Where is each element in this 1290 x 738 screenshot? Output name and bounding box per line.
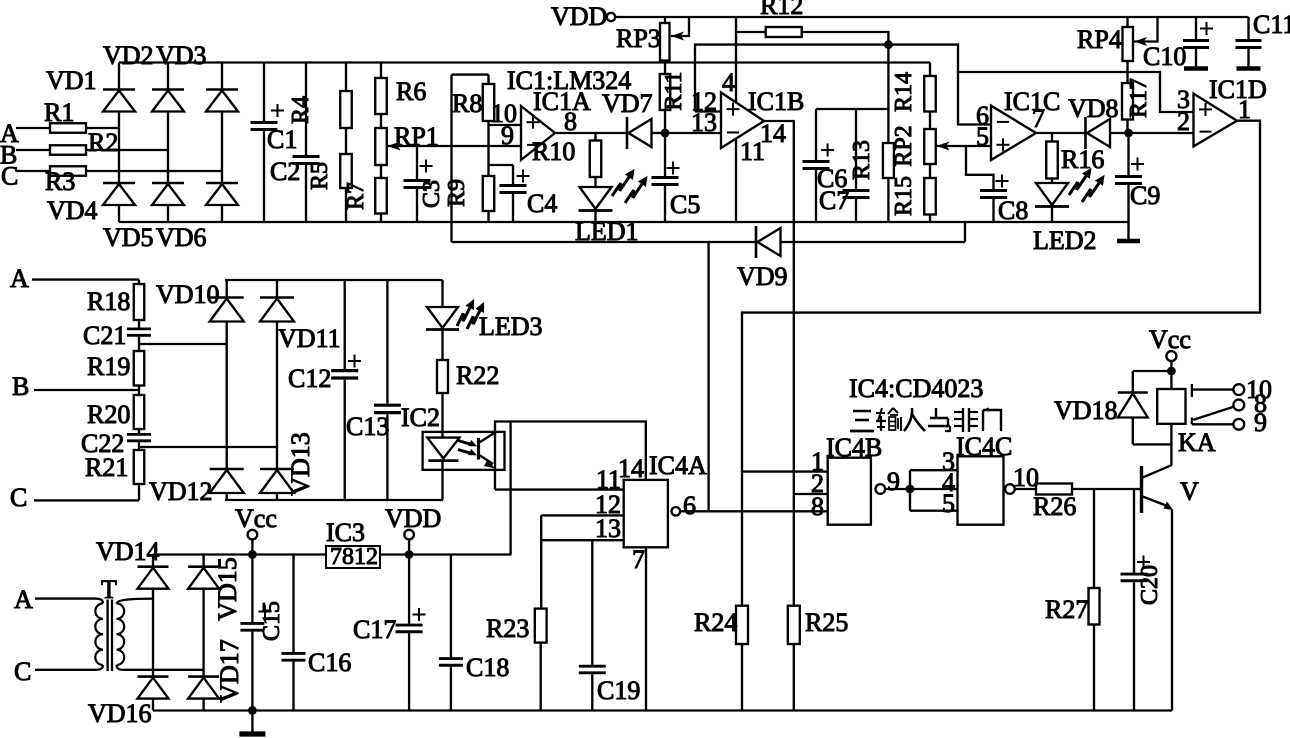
svg-text:R8: R8 — [452, 89, 482, 118]
svg-text:2: 2 — [1177, 107, 1190, 136]
svg-text:VD18: VD18 — [1054, 396, 1118, 425]
svg-text:C2: C2 — [270, 157, 300, 186]
svg-text:C20: C20 — [1137, 565, 1163, 605]
svg-text:8: 8 — [811, 492, 824, 521]
svg-text:Vcc: Vcc — [235, 504, 277, 533]
svg-text:RP3: RP3 — [616, 24, 661, 53]
svg-text:7: 7 — [1032, 104, 1045, 133]
svg-text:IC4A: IC4A — [649, 451, 707, 480]
svg-text:RP4: RP4 — [1077, 25, 1122, 54]
svg-text:R12: R12 — [760, 0, 803, 20]
svg-text:IC3: IC3 — [326, 518, 365, 547]
svg-text:C: C — [1, 162, 18, 191]
svg-text:C4: C4 — [527, 189, 557, 218]
svg-text:R23: R23 — [486, 614, 529, 643]
svg-text:VDD: VDD — [385, 504, 441, 533]
svg-text:VDD: VDD — [551, 2, 607, 31]
svg-text:7: 7 — [632, 545, 645, 574]
svg-text:C3: C3 — [419, 180, 445, 208]
svg-text:IC2: IC2 — [401, 403, 440, 432]
svg-text:13: 13 — [595, 514, 621, 543]
svg-text:R27: R27 — [1045, 595, 1088, 624]
svg-text:LED2: LED2 — [1033, 226, 1097, 255]
svg-text:C5: C5 — [670, 190, 700, 219]
svg-text:R16: R16 — [1061, 145, 1104, 174]
svg-text:7812: 7812 — [330, 544, 378, 570]
svg-text:VD2: VD2 — [103, 41, 154, 70]
svg-text:VD7: VD7 — [602, 89, 653, 118]
svg-text:C13: C13 — [346, 412, 389, 441]
svg-text:VD8: VD8 — [1068, 94, 1119, 123]
svg-text:5: 5 — [976, 122, 989, 151]
svg-text:C1: C1 — [267, 125, 297, 154]
svg-text:R19: R19 — [87, 352, 130, 381]
svg-text:14: 14 — [618, 454, 644, 483]
svg-text:C10: C10 — [1143, 42, 1186, 71]
svg-text:R5: R5 — [307, 162, 333, 190]
svg-text:VD6: VD6 — [156, 223, 207, 252]
svg-text:VD16: VD16 — [88, 699, 152, 728]
svg-text:A: A — [14, 585, 33, 614]
svg-text:R20: R20 — [87, 400, 130, 429]
svg-text:VD11: VD11 — [278, 324, 341, 353]
svg-text:R21: R21 — [85, 453, 128, 482]
svg-text:11: 11 — [740, 137, 765, 166]
svg-text:VD14: VD14 — [96, 537, 160, 566]
svg-text:IC4C: IC4C — [956, 432, 1012, 461]
svg-text:VD13: VD13 — [286, 432, 315, 496]
svg-text:R9: R9 — [444, 179, 470, 207]
svg-text:R13: R13 — [849, 140, 875, 180]
svg-text:R14: R14 — [891, 72, 917, 112]
svg-text:VD3: VD3 — [156, 41, 207, 70]
svg-text:A: A — [10, 264, 29, 293]
svg-text:RP2: RP2 — [891, 125, 917, 166]
svg-text:13: 13 — [691, 108, 717, 137]
svg-text:T: T — [101, 575, 117, 604]
svg-text:R25: R25 — [805, 608, 848, 637]
svg-text:R22: R22 — [456, 361, 499, 390]
svg-text:R7: R7 — [343, 182, 369, 210]
svg-text:VD12: VD12 — [149, 477, 213, 506]
svg-text:R11: R11 — [661, 71, 687, 110]
svg-text:4: 4 — [722, 68, 735, 97]
svg-text:LED3: LED3 — [479, 312, 543, 341]
svg-text:8: 8 — [564, 107, 577, 136]
svg-text:C12: C12 — [288, 364, 331, 393]
svg-text:IC4B: IC4B — [826, 433, 882, 462]
svg-text:R6: R6 — [396, 77, 426, 106]
svg-text:C7: C7 — [819, 186, 849, 215]
svg-text:R2: R2 — [88, 128, 118, 157]
svg-text:C17: C17 — [353, 615, 396, 644]
svg-text:KA: KA — [1178, 428, 1216, 457]
svg-text:R1: R1 — [44, 98, 74, 127]
svg-text:VD17: VD17 — [215, 639, 244, 703]
svg-text:R18: R18 — [87, 287, 130, 316]
svg-text:R10: R10 — [532, 137, 575, 166]
svg-text:C: C — [10, 483, 27, 512]
svg-text:R17: R17 — [1126, 78, 1152, 118]
svg-text:C19: C19 — [597, 676, 640, 705]
svg-text:IC1A: IC1A — [533, 87, 591, 116]
svg-text:Vcc: Vcc — [1149, 325, 1191, 354]
svg-text:R24: R24 — [694, 608, 737, 637]
svg-text:VD1: VD1 — [46, 66, 97, 95]
svg-text:R4: R4 — [288, 96, 314, 124]
svg-text:C16: C16 — [308, 648, 351, 677]
svg-text:6: 6 — [683, 491, 696, 520]
svg-text:R26: R26 — [1033, 492, 1076, 521]
svg-text:C18: C18 — [466, 653, 509, 682]
svg-text:9: 9 — [887, 467, 900, 496]
svg-text:9: 9 — [1254, 408, 1267, 437]
svg-text:VD5: VD5 — [103, 223, 154, 252]
svg-text:C15: C15 — [259, 601, 285, 641]
svg-text:VD4: VD4 — [47, 196, 98, 225]
svg-text:9: 9 — [501, 121, 514, 150]
svg-text:VD9: VD9 — [737, 262, 788, 291]
svg-text:R15: R15 — [891, 176, 917, 216]
svg-text:V: V — [1180, 477, 1199, 506]
svg-text:IC1B: IC1B — [748, 87, 804, 116]
svg-text:5: 5 — [942, 489, 955, 518]
svg-text:R3: R3 — [45, 167, 75, 196]
svg-text:B: B — [12, 372, 29, 401]
svg-text:IC4:CD4023: IC4:CD4023 — [849, 374, 983, 403]
svg-text:C8: C8 — [998, 196, 1028, 225]
svg-text:VD10: VD10 — [156, 280, 220, 309]
svg-text:VD15: VD15 — [213, 557, 242, 621]
svg-text:C11: C11 — [1253, 10, 1290, 39]
svg-text:C21: C21 — [83, 321, 126, 350]
svg-text:C9: C9 — [1130, 181, 1160, 210]
svg-text:C: C — [14, 657, 31, 686]
